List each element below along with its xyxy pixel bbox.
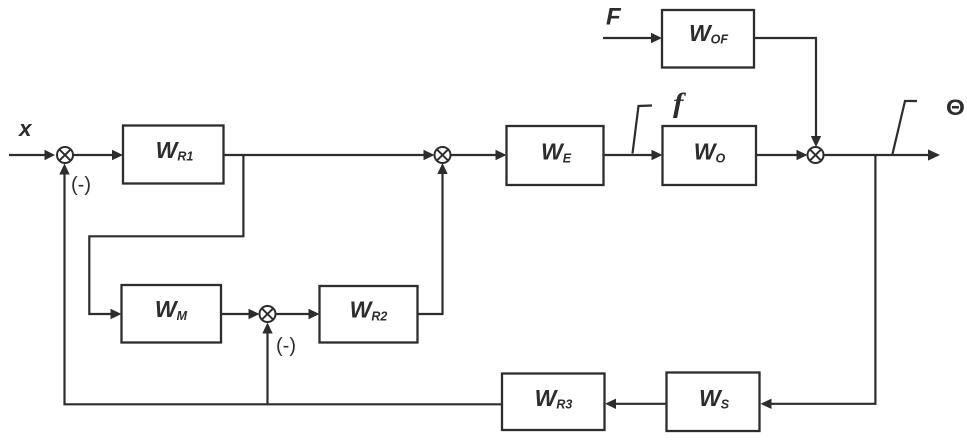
summing junction S3 [808, 147, 824, 163]
block WS [667, 373, 760, 432]
wire WM to S4 [221, 309, 260, 319]
wire F input [603, 33, 662, 43]
node theta label [946, 95, 965, 120]
summing junction S1 [57, 147, 73, 163]
block WR2 [320, 286, 418, 343]
wire WR2 up to S2 [418, 163, 448, 314]
wire S3 to output [824, 149, 941, 160]
block WOF [662, 10, 754, 68]
wire WE to WO [604, 150, 663, 160]
wire x input [9, 150, 55, 160]
block WR3 [502, 374, 605, 431]
wire branch WR1 output to WM [89, 155, 243, 319]
summing junction S2 [435, 147, 451, 163]
node f label [673, 89, 687, 119]
svg-text:F: F [606, 4, 622, 31]
wire S1 to WR1 [73, 150, 123, 160]
wire WR1 to S2 [224, 150, 435, 160]
wire WR3 to S1 [59, 164, 502, 405]
wire output feedback to WS [761, 155, 876, 409]
svg-text:(-): (-) [71, 174, 91, 196]
takeoff mark f [633, 106, 653, 154]
wire branch feedback to S4 [262, 323, 272, 405]
svg-text:x: x [18, 116, 33, 141]
wire WOF to S3 [754, 38, 821, 147]
svg-text:(-): (-) [276, 335, 296, 357]
wire WO to S3 [756, 150, 808, 160]
wire S2 to WE [451, 150, 507, 160]
block WE [507, 126, 604, 185]
block WO [663, 126, 757, 185]
svg-text:Θ: Θ [946, 95, 965, 120]
wire WS to WR3 [605, 399, 667, 409]
block WR1 [123, 126, 224, 184]
block WM [122, 285, 222, 343]
takeoff mark theta [893, 101, 918, 154]
summing junction S4 [260, 306, 276, 322]
wire S4 to WR2 [276, 309, 320, 319]
